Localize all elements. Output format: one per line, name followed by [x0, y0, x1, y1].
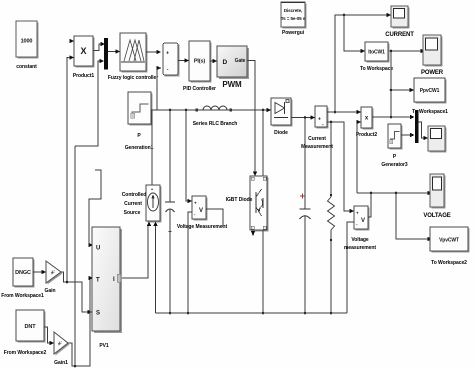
scope CURRENT — [385, 6, 414, 38]
svg-text:PI(s): PI(s) — [194, 59, 206, 65]
svg-text:PV1: PV1 — [99, 343, 109, 349]
svg-text:From Workspace1: From Workspace1 — [1, 293, 44, 299]
svg-text:X: X — [81, 46, 87, 56]
svg-text:Generator3: Generator3 — [381, 162, 407, 168]
wire voltage signal to product2 in2 — [357, 120, 362, 193]
current measurement CM — [301, 106, 333, 150]
mux M1 — [104, 38, 108, 70]
wire mux feedback vertical — [74, 146, 76, 366]
controlled current source CCS — [122, 185, 162, 223]
wire gain out to S input and junction — [61, 272, 92, 314]
svg-text:S: S — [96, 311, 100, 317]
svg-text:Series RLC Branch: Series RLC Branch — [193, 121, 237, 127]
svg-text:VOLTAGE: VOLTAGE — [423, 213, 450, 219]
step P Generator3 — [381, 124, 407, 168]
wire PWM gate to IGBT — [247, 61, 257, 177]
svg-text:P: P — [137, 133, 141, 139]
svg-text:Voltage: Voltage — [351, 237, 369, 243]
svg-text:+: + — [318, 117, 321, 123]
wire CM minus node — [327, 121, 354, 214]
wire branch to ItoCW1 — [344, 15, 365, 53]
to-workspace VpvCWT — [430, 227, 470, 266]
svg-text:Powergui: Powergui — [282, 30, 305, 36]
resistor R load — [328, 122, 335, 314]
scope POWER — [421, 35, 444, 76]
wire mux to fuzzy — [108, 49, 120, 53]
to-workspace ItoCW1 — [360, 42, 393, 72]
svg-text:Discrete,: Discrete, — [284, 8, 302, 13]
sum S1 — [163, 43, 180, 77]
wire CCS minus to bus — [155, 226, 157, 313]
capacitor C1 input — [165, 110, 175, 314]
product P1 — [73, 36, 95, 79]
PWM subsystem — [217, 46, 249, 89]
scope VOLTAGE — [423, 174, 450, 219]
wire IGBT emitter to bus — [262, 230, 265, 314]
svg-text:Measurement: Measurement — [301, 144, 333, 150]
wire VM2 minus to bus — [347, 222, 354, 313]
wire voltage signal to VOLTAGE scope — [357, 191, 432, 195]
wire product1-in2 feedback vertical — [67, 58, 70, 283]
wire main dc line — [151, 109, 269, 112]
IGBT m output stub — [251, 231, 255, 236]
wire collector from dc node — [262, 110, 264, 176]
svg-text:Voltage Measurement: Voltage Measurement — [177, 224, 228, 230]
svg-text:From Workspace2: From Workspace2 — [4, 350, 47, 356]
fuzzy logic controller — [108, 33, 158, 81]
svg-text:D: D — [223, 59, 228, 66]
svg-text:Source: Source — [124, 210, 141, 216]
svg-text:V: V — [199, 208, 203, 214]
svg-text:CURRENT: CURRENT — [385, 32, 414, 38]
svg-text:PWM: PWM — [222, 80, 242, 89]
wire diode to current measurement — [291, 115, 315, 119]
svg-text:PID Controller: PID Controller — [183, 86, 216, 92]
mux M2 — [415, 110, 419, 143]
svg-text:IGBT Diode: IGBT Diode — [226, 197, 253, 203]
wire mux2 to scope — [419, 122, 429, 140]
wire product2 out to mux2 — [372, 115, 415, 119]
gain G2 triangle — [54, 332, 70, 366]
wire sum-in2 from P Generation1 line — [157, 66, 162, 110]
svg-text:Generation1: Generation1 — [125, 145, 154, 151]
svg-text:ItoCW1: ItoCW1 — [368, 50, 385, 56]
svg-text:DNGC: DNGC — [15, 270, 31, 276]
svg-text:Diode: Diode — [274, 130, 288, 136]
wire current signal up to CURRENT scope — [334, 13, 391, 114]
constant block 1000 — [16, 21, 39, 70]
svg-text:PpvCW1: PpvCW1 — [420, 88, 440, 94]
svg-text:1000: 1000 — [21, 39, 33, 45]
wire CM i out to product2 — [327, 110, 361, 114]
capacitor C2 dc link — [300, 118, 311, 315]
IGBT diode block — [226, 176, 269, 232]
wire branch to VpvCWT — [396, 193, 432, 241]
svg-text:U: U — [96, 246, 100, 252]
svg-text:T: T — [96, 278, 100, 284]
svg-text:Product2: Product2 — [356, 132, 378, 138]
CCS bottom port arrows — [147, 222, 158, 227]
wire VM1 minus to bus — [187, 212, 192, 314]
svg-text:Gain: Gain — [45, 288, 56, 294]
wire VM2 v out to voltage bus — [368, 193, 371, 217]
svg-text:+: + — [166, 51, 169, 57]
wire gain1 out down and across — [68, 276, 93, 368]
svg-text:DNT: DNT — [25, 324, 37, 330]
wire PV1 I out to CCS signal in — [120, 226, 148, 278]
svg-text:Gain1: Gain1 — [54, 360, 68, 366]
svg-text:Current: Current — [124, 201, 142, 207]
powergui — [281, 2, 307, 36]
svg-text:To Workspace2: To Workspace2 — [431, 260, 467, 266]
voltage measurement VM1 — [177, 196, 228, 230]
wire mux-in2 from below — [75, 59, 104, 146]
product P1 input arrows — [70, 39, 75, 60]
svg-text:Fuzzy logic controller: Fuzzy logic controller — [108, 75, 158, 81]
diode D1 — [267, 98, 293, 136]
to-workspace PpvCW1 — [412, 78, 448, 115]
wire DNGC to gain — [33, 270, 46, 274]
gain G1 triangle — [45, 261, 63, 294]
product P2 — [356, 107, 378, 138]
voltage measurement VM2 — [344, 206, 376, 251]
svg-text:P: P — [393, 154, 397, 160]
svg-text:Product1: Product1 — [73, 73, 95, 79]
wire CCS plus terminal — [151, 110, 153, 185]
ground bus wire — [156, 312, 348, 314]
svg-text:constant: constant — [16, 64, 37, 70]
svg-text:POWER: POWER — [421, 70, 444, 76]
PID controller — [183, 41, 216, 92]
scope Scope4 — [428, 126, 447, 153]
wire PID to PWM — [210, 59, 217, 63]
svg-text:Current: Current — [308, 136, 326, 142]
wire PGenerator3 to mux2 — [401, 133, 415, 137]
wire U input feed — [89, 170, 102, 247]
svg-text:To Workspace: To Workspace — [360, 66, 393, 72]
PV array PV1 — [92, 227, 122, 349]
wire product1 to mux — [93, 42, 105, 51]
series RLC branch inductor — [193, 106, 237, 127]
svg-text:Ts = 5e-05 s: Ts = 5e-05 s — [281, 16, 306, 21]
from-workspace DNGC — [1, 258, 44, 299]
svg-text:Gate: Gate — [235, 58, 246, 64]
svg-text:Controlled: Controlled — [122, 192, 147, 198]
wire DNT to gain1 — [44, 327, 54, 345]
svg-text:measurement: measurement — [344, 245, 376, 251]
wire branch to PpvCW1 — [390, 88, 414, 92]
wire sum to PID — [178, 58, 189, 62]
svg-text:VpvCWT: VpvCWT — [439, 238, 459, 244]
svg-text:V: V — [361, 218, 365, 224]
wire VM1 v out — [206, 209, 223, 227]
from-workspace DNT — [4, 310, 47, 356]
wire fuzzy to sum — [146, 50, 161, 54]
wire power signal up from product2 — [390, 49, 425, 119]
step P Generation1 — [125, 92, 154, 151]
wire VM1 plus feed — [186, 110, 192, 203]
